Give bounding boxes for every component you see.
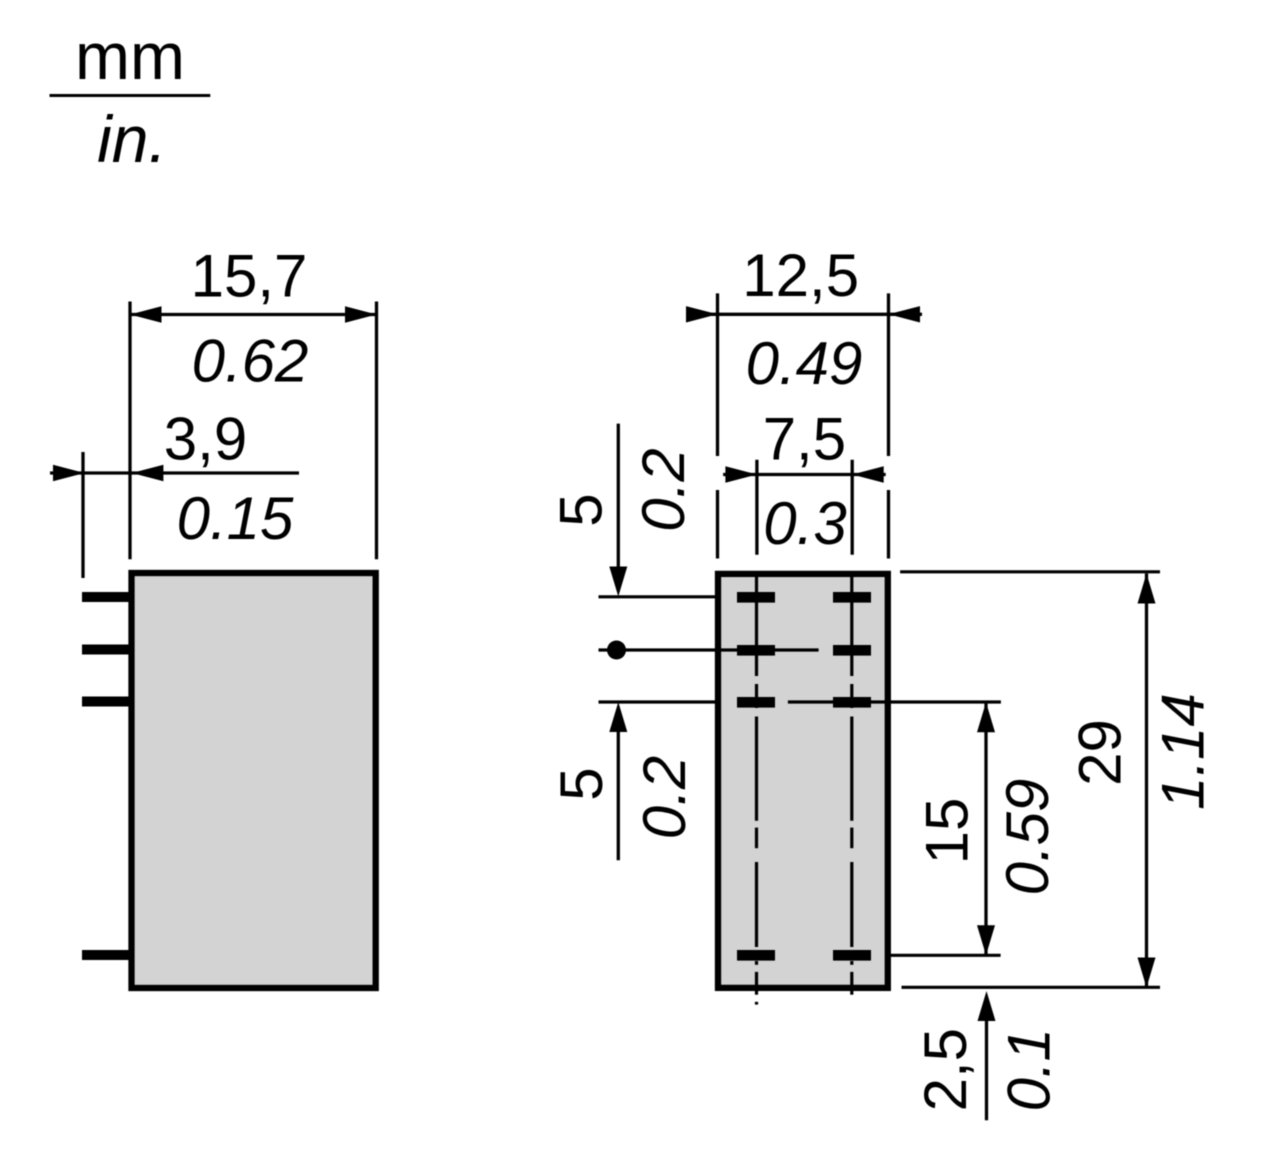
dim text 1.14 (1150, 693, 1217, 810)
dim text 0.59 (994, 779, 1061, 896)
dim text 15 (914, 798, 981, 865)
svg-text:0.15: 0.15 (177, 485, 294, 552)
svg-text:0.49: 0.49 (746, 330, 863, 397)
svg-text:0.3: 0.3 (763, 490, 846, 557)
units label mm (75, 19, 185, 93)
dim 15,7 dimension line (130, 313, 377, 316)
dim text 12,5 (742, 242, 859, 309)
dim 12,5 dimension line (686, 313, 922, 316)
dim text 0.49 (746, 330, 863, 397)
svg-text:3,9: 3,9 (164, 406, 247, 473)
dim text 0.15 (177, 485, 294, 552)
dim 3,9 left-pointing arrow (132, 465, 164, 481)
svg-text:15,7: 15,7 (191, 243, 308, 310)
svg-text:in.: in. (97, 102, 167, 176)
pad row2 left (737, 645, 775, 656)
svg-text:0.2: 0.2 (630, 448, 697, 531)
svg-text:1.14: 1.14 (1150, 693, 1217, 810)
dim 12,5 right extension line (887, 293, 890, 558)
pad row3 left (737, 697, 775, 708)
dim 12,5 left extension line (716, 293, 719, 558)
dim 15,7 left arrow (130, 306, 162, 322)
body top reference line (900, 570, 1160, 573)
dim 5 lower dimension line (617, 718, 620, 860)
dim text 0.62 (192, 328, 309, 395)
bottom view body (718, 574, 888, 988)
svg-text:0.59: 0.59 (994, 779, 1061, 896)
dim 5 upper down arrow (609, 567, 627, 597)
svg-text:7,5: 7,5 (763, 405, 846, 472)
dim 12,5 right outside arrow (889, 306, 921, 322)
svg-text:0.62: 0.62 (192, 328, 309, 395)
body bottom reference line (902, 986, 1161, 989)
row2 reference dot (607, 641, 626, 660)
dim 29 down arrow (1138, 958, 1156, 988)
dim 15 up arrow (977, 702, 995, 732)
svg-text:5: 5 (548, 493, 615, 526)
dim text 5 upper (548, 493, 615, 526)
row3 reference line (599, 700, 1001, 703)
left view pin 4 (82, 950, 132, 960)
row1 reference line (599, 595, 717, 598)
dim 29 dimension line (1145, 574, 1148, 988)
dim text 0.1 (996, 1028, 1063, 1111)
dim text 5 lower (548, 767, 615, 800)
svg-text:5: 5 (548, 767, 615, 800)
pad row1 right (833, 592, 871, 603)
dim 3,9 outside right-pointing arrow (53, 465, 85, 481)
dim 15,7 left extension line (128, 302, 131, 560)
dim 2,5 dimension line (985, 1007, 988, 1120)
dim text 0.2 upper (630, 448, 697, 531)
svg-text:15: 15 (914, 798, 981, 865)
pad row2 right (833, 645, 871, 656)
centerline left column (755, 573, 758, 1005)
units label in. (97, 102, 167, 176)
dim 29 up arrow (1138, 574, 1156, 604)
dim 3,9 pin extension line (81, 452, 84, 578)
row2 reference line (599, 648, 819, 651)
left view body (132, 573, 376, 988)
svg-text:2,5: 2,5 (912, 1028, 979, 1111)
svg-text:0.2: 0.2 (631, 756, 698, 839)
dim 5 upper dimension line (617, 424, 620, 580)
dim 3,9 dimension line (50, 471, 299, 474)
dim text 3,9 (164, 406, 247, 473)
units fraction line (50, 94, 211, 97)
svg-text:29: 29 (1067, 719, 1134, 786)
dim 15,7 right extension line (375, 302, 378, 560)
pad row1 left (737, 592, 775, 603)
dim text 29 (1067, 719, 1134, 786)
dim 7,5 right extension line (851, 460, 854, 555)
dim 15 dimension line (984, 702, 987, 955)
dim 2,5 up arrow (978, 991, 996, 1021)
dim 12,5 left outside arrow (686, 306, 718, 322)
dim 15,7 right arrow (345, 306, 377, 322)
dim 7,5 dimension line (723, 473, 886, 476)
centerline right column (850, 573, 853, 995)
left view pin 2 (82, 645, 132, 655)
dim 15 down arrow (977, 925, 995, 955)
dim text 2,5 (912, 1028, 979, 1111)
row4 reference line (890, 954, 1000, 957)
dim text 0.2 lower (631, 756, 698, 839)
dim text 15,7 (191, 243, 308, 310)
svg-text:12,5: 12,5 (742, 242, 859, 309)
dim text 0.3 (763, 490, 846, 557)
svg-text:mm: mm (75, 19, 185, 93)
pad row4 right (833, 950, 871, 961)
svg-text:0.1: 0.1 (996, 1028, 1063, 1111)
dim 7,5 left extension line (755, 460, 758, 555)
dim 7,5 left outside arrow (725, 466, 757, 482)
dim 7,5 right outside arrow (852, 466, 884, 482)
pad row4 left (737, 950, 775, 961)
left view pin 3 (82, 697, 132, 707)
pad row3 right (833, 697, 871, 708)
dim 5 lower up arrow (609, 702, 627, 732)
left view pin 1 (82, 592, 132, 602)
dim text 7,5 (763, 405, 846, 472)
